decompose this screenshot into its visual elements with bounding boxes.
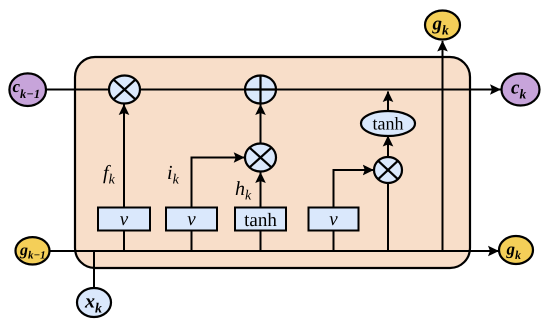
svg-text:ν: ν: [187, 209, 196, 230]
svg-text:tanh: tanh: [244, 210, 277, 231]
svg-text:tanh: tanh: [373, 114, 404, 134]
svg-text:ν: ν: [120, 209, 129, 230]
svg-text:ν: ν: [329, 209, 338, 230]
